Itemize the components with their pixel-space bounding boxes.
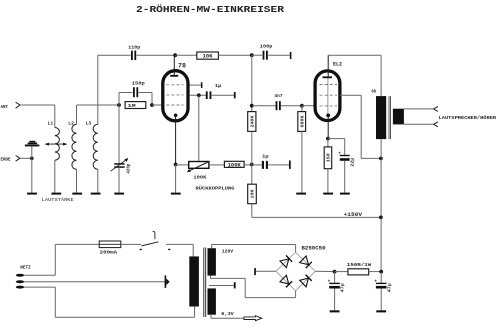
svg-text:110p: 110p (128, 44, 140, 50)
svg-text:RÜCKKOPPLUNG: RÜCKKOPPLUNG (196, 184, 235, 191)
svg-text:2-RÖHREN-MW-EINKREISER: 2-RÖHREN-MW-EINKREISER (136, 4, 284, 15)
svg-text:200mA: 200mA (100, 250, 118, 256)
svg-text:680K: 680K (299, 115, 305, 127)
svg-text:10K: 10K (203, 54, 213, 60)
svg-text:+: + (374, 279, 377, 284)
svg-text:100p: 100p (260, 43, 273, 49)
svg-text:100K: 100K (193, 174, 206, 180)
svg-text:+: + (338, 151, 341, 156)
svg-text:150p: 150p (132, 81, 145, 87)
svg-text:4n7: 4n7 (274, 93, 282, 99)
svg-text:ERDE: ERDE (1, 156, 11, 162)
svg-text:1µ: 1µ (262, 154, 269, 160)
svg-text:NETZ: NETZ (20, 265, 31, 271)
svg-text:B250C50: B250C50 (302, 246, 326, 252)
svg-text:LAUTSPRECHER/HÖRER: LAUTSPRECHER/HÖRER (439, 114, 497, 121)
svg-text:10K: 10K (250, 189, 256, 198)
svg-text:+: + (328, 279, 331, 284)
svg-text:EL2: EL2 (333, 62, 342, 68)
svg-text:+150V: +150V (344, 212, 363, 218)
svg-text:LAUTSTÄRKE: LAUTSTÄRKE (42, 196, 74, 203)
svg-text:150: 150 (326, 153, 332, 162)
svg-text:L1: L1 (48, 120, 54, 126)
svg-text:22µ: 22µ (350, 157, 356, 166)
svg-text:420p: 420p (125, 163, 131, 173)
svg-text:100K: 100K (228, 162, 241, 168)
svg-text:120V: 120V (222, 248, 233, 254)
svg-text:1M: 1M (128, 103, 136, 109)
svg-text:ANT: ANT (1, 104, 9, 110)
svg-text:47µ: 47µ (386, 283, 392, 292)
svg-text:240K: 240K (249, 115, 255, 127)
svg-text:L3: L3 (86, 120, 92, 126)
svg-text:150R/1W: 150R/1W (347, 262, 372, 268)
svg-text:6,3V: 6,3V (221, 311, 234, 317)
svg-text:78: 78 (178, 63, 186, 70)
svg-text:6k: 6k (371, 89, 376, 95)
svg-text:1µ: 1µ (215, 83, 222, 89)
svg-text:47µ: 47µ (340, 283, 346, 292)
